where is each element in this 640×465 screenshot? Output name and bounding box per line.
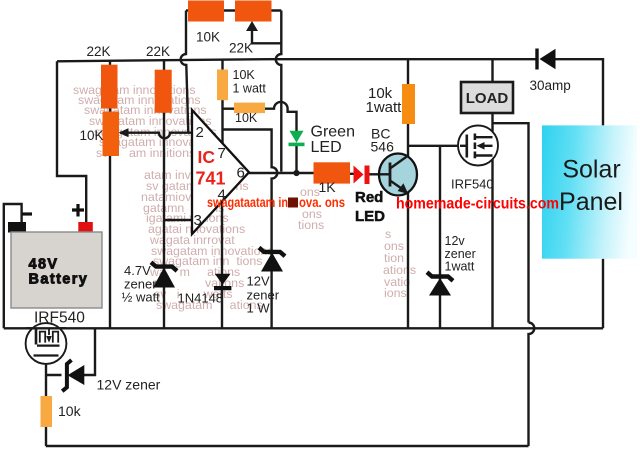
wire top loop (186, 9, 281, 11)
wire stub to 10K feedback (223, 107, 235, 109)
svg-text:741: 741 (196, 169, 226, 189)
wire pin3 stub (164, 219, 192, 221)
zener diode 12V 1W (259, 248, 285, 272)
wire 12v zener gate clamp column (439, 146, 441, 328)
svg-text:1N4148: 1N4148 (178, 291, 224, 306)
wire op-amp output (249, 172, 314, 174)
svg-text:546: 546 (371, 139, 395, 155)
wire rail to LOAD (491, 59, 493, 82)
op-amp U1 IC741 (192, 110, 249, 234)
junction dot output (293, 170, 299, 176)
resistor 22K R2 (155, 70, 172, 113)
svg-text:10k: 10k (58, 403, 82, 419)
svg-text:ions: ions (384, 286, 407, 300)
wire ground rail (4, 327, 603, 329)
svg-text:Green: Green (311, 124, 355, 141)
wire 22K/10K pot column (109, 61, 111, 329)
svg-text:LOAD: LOAD (466, 90, 509, 107)
watermark fragment column 3 (298, 185, 416, 300)
svg-text:1watt: 1watt (366, 99, 403, 116)
wire top loop right leg with hop over rail (276, 11, 282, 172)
wire left MOSFET source down (45, 356, 47, 397)
svg-text:12V zener: 12V zener (97, 377, 161, 393)
wire 22K2/pin3/4.7V zener column (163, 61, 165, 329)
resistor 10K feedback horizontal (234, 103, 265, 114)
wire LOAD to IRF540 drain (491, 113, 493, 137)
svg-text:1 W: 1 W (247, 301, 271, 316)
watermark swagatam innovations block 1 (73, 83, 222, 160)
svg-text:LED: LED (311, 139, 342, 156)
svg-text:1 watt: 1 watt (233, 82, 267, 96)
resistor 10K 1 watt vertical (217, 70, 228, 101)
svg-text:swagataatam in: swagataatam in (207, 195, 288, 210)
svg-text:ova. ons: ova. ons (299, 195, 345, 210)
wire battery plus branch (57, 61, 86, 222)
svg-text:10K: 10K (80, 128, 104, 143)
svg-text:10K: 10K (233, 68, 256, 82)
resistor 10k bottom (41, 396, 53, 427)
wire IRF540 source column (491, 156, 493, 329)
svg-text:LED: LED (355, 208, 385, 225)
red LED (354, 166, 370, 185)
svg-text:tions: tions (298, 218, 324, 232)
svg-text:Solar: Solar (562, 156, 620, 184)
zener diode 4.7V (151, 262, 177, 287)
wire 10K 1watt column / pin7 (221, 59, 223, 144)
wire pot wiper to right leg (252, 30, 281, 43)
resistor 22K R1 (101, 65, 118, 109)
svg-text:12v: 12v (445, 234, 466, 248)
wire 12V zener branch bottom left (46, 328, 95, 375)
svg-text:3: 3 (194, 212, 202, 229)
wire 10k 1watt bottom to BC546 collector (407, 124, 409, 156)
resistor 10K top loop (188, 1, 224, 22)
svg-text:22K: 22K (146, 44, 170, 59)
svg-text:1watt: 1watt (445, 260, 475, 274)
svg-text:Battery: Battery (29, 272, 89, 288)
LOAD box (461, 82, 513, 113)
svg-text:homemade-circuits.com: homemade-circuits.com (396, 196, 559, 213)
wire top rail (57, 59, 537, 61)
svg-text:1K: 1K (318, 179, 336, 195)
svg-text:30amp: 30amp (530, 78, 571, 93)
wire pin4 to 1N4148 column (221, 203, 223, 329)
wire pin7 branch to 12V zener with hop over output (223, 130, 278, 329)
svg-text:6: 6 (237, 165, 245, 182)
wire bottom rail (46, 445, 529, 447)
MOSFET U2 IRF540 right (458, 126, 498, 166)
wire rail after 30amp diode to solar panel (555, 59, 603, 125)
MOSFET U3 IRF540 left (26, 323, 67, 364)
wire top loop left leg with hop over rail (181, 11, 189, 133)
wire 10k 1watt top (407, 59, 409, 84)
wire 10k bottom to rail (45, 427, 47, 446)
svg-text:10K: 10K (196, 30, 220, 45)
battery 48V (8, 204, 102, 308)
wire 10K feedback to green LED with hop (265, 102, 297, 131)
svg-text:IRF540: IRF540 (34, 310, 85, 327)
svg-text:IC: IC (198, 147, 216, 167)
wire drain branch right (493, 123, 529, 322)
potentiometer 22K top loop (235, 1, 272, 22)
wire red LED to BC546 base (369, 173, 380, 175)
svg-text:Panel: Panel (559, 188, 623, 216)
pot 22K arrow (246, 21, 258, 31)
wire 1K to red LED (350, 173, 355, 175)
svg-text:12V: 12V (247, 274, 270, 289)
green LED (289, 131, 305, 145)
zener diode 12V bottom left (62, 360, 84, 391)
wire pin2 from pot arrow (120, 133, 192, 139)
svg-text:48V: 48V (29, 257, 59, 273)
wire gate line to IRF540 (408, 145, 467, 147)
svg-text:½ watt: ½ watt (122, 290, 161, 305)
wire BC546 emitter column (407, 193, 409, 328)
svg-text:IRF540: IRF540 (451, 177, 494, 192)
svg-text:2: 2 (196, 124, 204, 141)
svg-text:Red: Red (355, 189, 383, 206)
svg-text:7: 7 (218, 145, 226, 162)
potentiometer 10K body (103, 112, 120, 157)
pot 10K arrow (119, 128, 129, 137)
svg-text:22K: 22K (229, 41, 253, 56)
zener diode 12v 1watt gate clamp (427, 272, 453, 295)
wire solar panel bottom (602, 259, 604, 329)
resistor 10k 1watt (402, 84, 415, 124)
diode 30amp (537, 49, 556, 70)
solar panel (542, 125, 637, 258)
svg-text:10K: 10K (235, 111, 258, 125)
wire battery minus branch (4, 204, 22, 328)
watermark swagatam innovations block 2 (141, 168, 274, 312)
svg-text:22K: 22K (87, 44, 111, 59)
transistor Q1 BC546 (379, 154, 417, 196)
wire green LED to output junction (295, 146, 297, 173)
diode 1N4148 (214, 274, 231, 288)
wire right column hop over ground rail (529, 323, 535, 447)
resistor 1K (314, 162, 351, 183)
